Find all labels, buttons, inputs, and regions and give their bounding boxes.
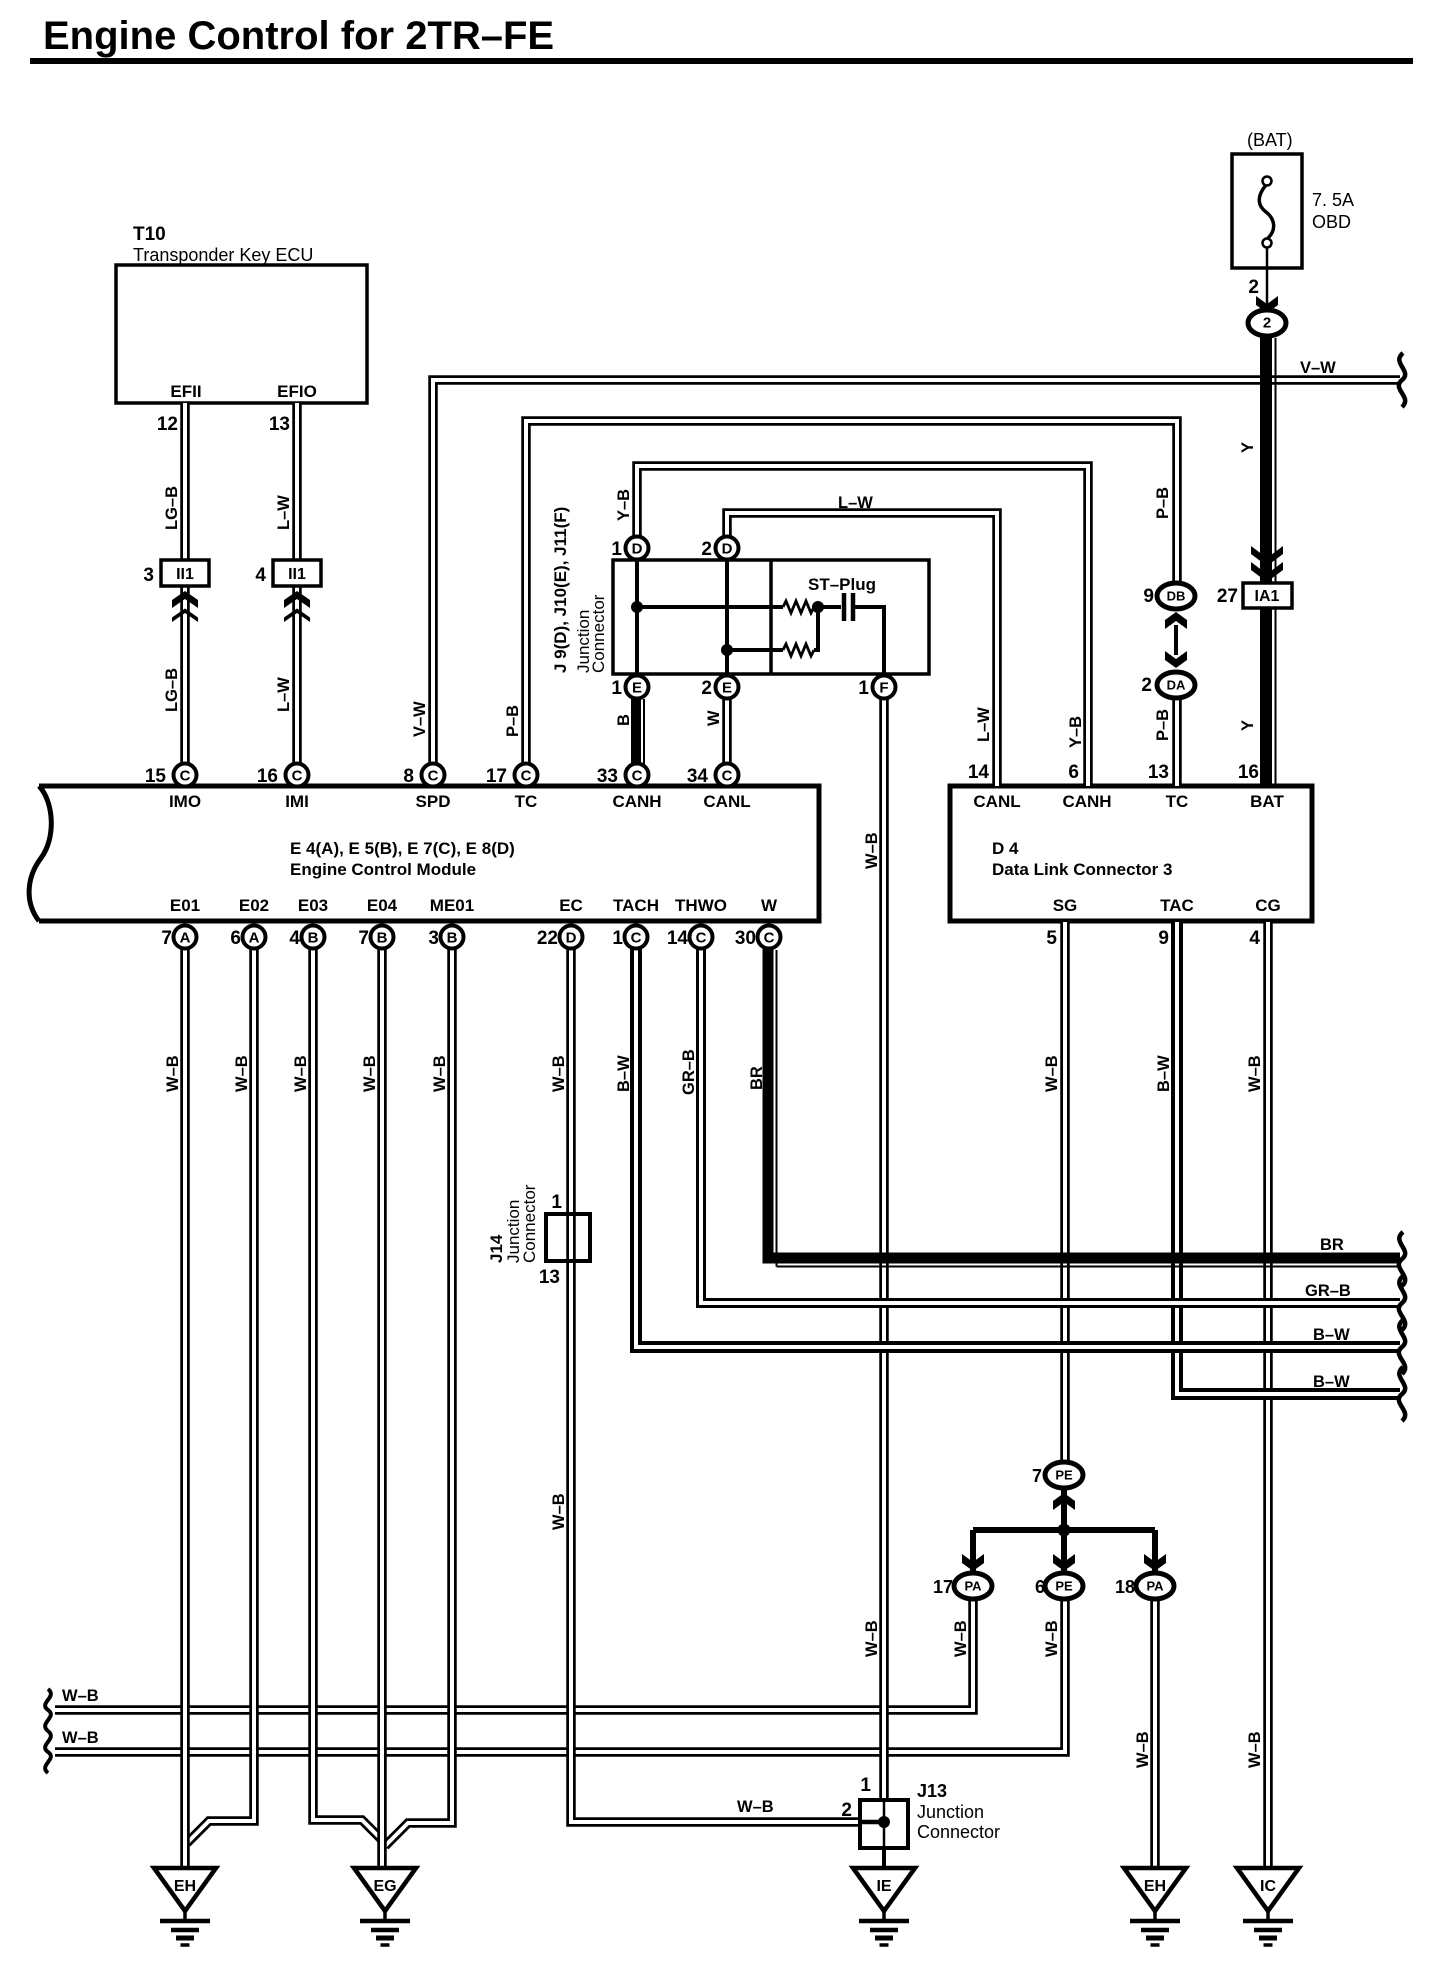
svg-text:E: E	[632, 680, 642, 697]
bus 2 continuation brace at left edge	[45, 1731, 51, 1773]
J13 internal wire vertical	[883, 1800, 886, 1848]
wire W-B from junction connector pin 1F down to J13	[879, 699, 889, 1800]
junction connector pin 1D	[626, 537, 649, 560]
internal wire from 1D bus to resistor R1	[637, 605, 783, 609]
svg-text:8: 8	[403, 766, 414, 787]
svg-text:7: 7	[1032, 1466, 1042, 1486]
svg-text:B: B	[447, 930, 458, 947]
svg-text:C: C	[180, 768, 191, 785]
svg-text:B: B	[377, 930, 388, 947]
arrow down into PA pin 18	[1144, 1554, 1166, 1571]
svg-text:6: 6	[1068, 762, 1079, 783]
wire LG-B from T10 EFII pin 12 through II1 to ECM IMO pin 15C	[180, 403, 190, 764]
svg-text:4: 4	[289, 928, 300, 949]
svg-text:Y: Y	[1239, 720, 1257, 731]
junction connector pin 1F	[873, 676, 896, 699]
svg-text:16: 16	[257, 766, 278, 787]
svg-text:CANH: CANH	[1062, 792, 1111, 811]
ground IC	[1237, 1868, 1299, 1945]
svg-text:PA: PA	[964, 1579, 982, 1594]
bus 1 continuation brace at left edge	[45, 1689, 51, 1731]
junction connector internal bus 1D-1E	[635, 560, 639, 674]
svg-text:V–W: V–W	[1300, 359, 1336, 377]
stem between DB and DA arrows	[1174, 625, 1178, 655]
svg-text:B: B	[615, 714, 633, 726]
svg-text:W: W	[761, 896, 778, 915]
svg-text:3: 3	[143, 565, 154, 586]
svg-text:E02: E02	[239, 896, 269, 915]
svg-text:1: 1	[611, 678, 622, 699]
svg-text:II1: II1	[176, 566, 194, 583]
svg-text:SG: SG	[1053, 896, 1078, 915]
svg-text:W–B: W–B	[431, 1055, 449, 1092]
svg-text:BR: BR	[1320, 1236, 1344, 1254]
svg-text:Connector: Connector	[589, 594, 608, 673]
svg-text:B–W: B–W	[615, 1055, 633, 1092]
internal wire from 2E bus to resistor R2	[727, 648, 783, 652]
svg-text:6: 6	[1035, 1577, 1045, 1597]
wire L-W from junction 2D to DLC3 CANL pin 14	[727, 513, 997, 786]
svg-text:V–W: V–W	[411, 701, 429, 737]
svg-text:TACH: TACH	[613, 896, 659, 915]
svg-text:W–B: W–B	[1043, 1620, 1061, 1657]
ECM pin 33 C (CANH)	[626, 764, 649, 787]
svg-text:A: A	[249, 930, 260, 947]
svg-text:2: 2	[701, 678, 712, 699]
svg-text:C: C	[521, 768, 532, 785]
svg-text:SPD: SPD	[416, 792, 451, 811]
svg-text:PE: PE	[1055, 1579, 1073, 1594]
ECM pin 34 C (CANL)	[716, 764, 739, 787]
wire W-B ground bus 1 from left edge to connector PA pin17	[55, 1598, 973, 1710]
oval node 2	[1248, 310, 1286, 336]
oval connector PE pin 6	[1045, 1573, 1083, 1599]
wire W-B from ECM E03 pin 4B merging to EG ground lead	[313, 948, 384, 1842]
svg-text:Data Link Connector 3: Data Link Connector 3	[992, 860, 1172, 879]
connector II1 pin 3 box	[161, 560, 209, 586]
svg-text:IC: IC	[1260, 1878, 1276, 1895]
svg-text:P–B: P–B	[504, 705, 522, 737]
svg-text:5: 5	[1046, 928, 1057, 949]
wire P-B from ECM TC pin 17C to connector DB pin 9	[526, 421, 1177, 764]
junction connector pin 2D	[716, 537, 739, 560]
svg-text:W–B: W–B	[62, 1687, 99, 1705]
wire Y (battery feed) from node 2 through IA1 to DLC3 BAT pin 16	[1266, 336, 1276, 786]
svg-text:F: F	[879, 680, 888, 697]
svg-text:OBD: OBD	[1312, 212, 1351, 232]
svg-text:7: 7	[358, 928, 369, 949]
junction dot on 1D bus	[631, 601, 643, 613]
svg-text:W–B: W–B	[863, 832, 881, 869]
svg-text:W–B: W–B	[1134, 1731, 1152, 1768]
svg-text:W: W	[705, 710, 723, 726]
oval connector PA pin 17	[954, 1573, 992, 1599]
svg-text:W–B: W–B	[952, 1620, 970, 1657]
ECM pin 4 B (E03)	[302, 926, 325, 949]
svg-text:TC: TC	[515, 792, 538, 811]
ECM pin 3 B (ME01)	[441, 926, 464, 949]
svg-text:W–B: W–B	[550, 1493, 568, 1530]
resistor R2 (ST-plug)	[783, 644, 814, 656]
junction dot after R1	[812, 601, 824, 613]
IA1 connector box	[1243, 583, 1292, 608]
svg-text:CANL: CANL	[703, 792, 750, 811]
arrow up into II1 (right)	[284, 591, 310, 622]
internal wire R1 to capacitor	[814, 605, 841, 609]
wire Y-B from junction 1D to DLC3 CANH pin 6	[637, 466, 1088, 786]
BR wire continuation at right edge	[1399, 1232, 1405, 1286]
ECM pin 8 C (SPD)	[422, 764, 445, 787]
svg-text:D: D	[566, 930, 577, 947]
svg-text:J 9(D), J10(E), J11(F): J 9(D), J10(E), J11(F)	[551, 507, 570, 673]
svg-text:17: 17	[486, 766, 507, 787]
junction dot at splitter	[1058, 1524, 1071, 1537]
svg-text:2: 2	[701, 539, 712, 560]
svg-text:12: 12	[157, 414, 178, 435]
svg-text:W–B: W–B	[292, 1055, 310, 1092]
junction dot on 2E bus	[721, 644, 733, 656]
svg-text:18: 18	[1115, 1577, 1135, 1597]
arrow down into PE pin 6	[1053, 1554, 1075, 1571]
svg-text:LG–B: LG–B	[163, 668, 181, 712]
svg-text:9: 9	[1158, 928, 1169, 949]
svg-text:EFIO: EFIO	[277, 382, 317, 401]
svg-text:PE: PE	[1055, 1468, 1073, 1483]
svg-text:C: C	[428, 768, 439, 785]
junction connector pin 1E	[626, 676, 649, 699]
wire W from junction 2E to ECM CANL pin 34C	[722, 699, 732, 764]
svg-text:C: C	[631, 930, 642, 947]
svg-text:P–B: P–B	[1154, 709, 1172, 741]
svg-text:L–W: L–W	[838, 494, 873, 512]
wire from J13 to ground IE	[882, 1848, 886, 1868]
svg-text:Connector: Connector	[520, 1184, 539, 1263]
svg-text:14: 14	[667, 928, 689, 949]
svg-text:1: 1	[858, 678, 869, 699]
wire L-W from T10 EFIO pin 13 through II1 to ECM IMI pin 16C	[292, 403, 302, 764]
svg-text:BR: BR	[748, 1066, 766, 1090]
ground EH (left)	[154, 1868, 216, 1945]
svg-text:Engine Control for 2TR–FE: Engine Control for 2TR–FE	[43, 14, 554, 58]
svg-text:ST–Plug: ST–Plug	[808, 575, 876, 594]
wire B-W from ECM TACH pin 1C to right edge	[636, 948, 1400, 1347]
svg-text:13: 13	[1148, 762, 1169, 783]
wire W-B ground bus 2 from left edge to connector PE pin6	[55, 1598, 1065, 1752]
oval connector DB pin 9	[1157, 583, 1195, 609]
wire W-B from connector PA pin 18 to ground EH (right)	[1150, 1598, 1160, 1868]
internal wire capacitor to pin 1F	[853, 607, 884, 674]
svg-text:Engine Control Module: Engine Control Module	[290, 860, 476, 879]
svg-text:C: C	[632, 768, 643, 785]
svg-text:ME01: ME01	[430, 896, 474, 915]
transponder key ECU T10 box	[116, 265, 367, 403]
svg-text:T10: T10	[133, 224, 166, 245]
svg-text:W–B: W–B	[1246, 1731, 1264, 1768]
arrow up into II1 (left)	[172, 591, 198, 622]
ECM box E4(A),E5(B),E7(C),E8(D) Engine Control Module	[29, 786, 819, 921]
title underline rule	[30, 58, 1413, 64]
svg-text:CG: CG	[1255, 896, 1281, 915]
ECM pin 6 A (E02)	[243, 926, 266, 949]
V-W wire continuation at right edge	[1399, 353, 1405, 407]
svg-text:P–B: P–B	[1154, 487, 1172, 519]
svg-text:D: D	[722, 541, 733, 558]
svg-text:W–B: W–B	[1043, 1055, 1061, 1092]
svg-text:22: 22	[537, 928, 558, 949]
svg-text:7: 7	[161, 928, 172, 949]
ground EH (right)	[1124, 1868, 1186, 1945]
junction connector internal bus 2D-2E	[725, 560, 729, 674]
ECM pin 7 B (E04)	[371, 926, 394, 949]
svg-text:THWO: THWO	[675, 896, 727, 915]
svg-text:LG–B: LG–B	[163, 486, 181, 530]
svg-text:33: 33	[597, 766, 618, 787]
svg-text:1: 1	[551, 1192, 562, 1213]
svg-text:W–B: W–B	[361, 1055, 379, 1092]
svg-text:6: 6	[230, 928, 241, 949]
GR-B wire continuation at right edge	[1399, 1276, 1405, 1330]
svg-text:2: 2	[1248, 277, 1259, 298]
svg-text:B–W: B–W	[1155, 1055, 1173, 1092]
connector II1 pin 4 box	[273, 560, 321, 586]
svg-text:IMI: IMI	[285, 792, 309, 811]
junction connector J13 box	[860, 1800, 908, 1848]
svg-text:(BAT): (BAT)	[1247, 130, 1293, 150]
svg-text:E01: E01	[170, 896, 200, 915]
svg-text:GR–B: GR–B	[1305, 1282, 1351, 1300]
svg-text:PA: PA	[1146, 1579, 1164, 1594]
svg-text:1: 1	[611, 539, 622, 560]
wire W-B from DLC3 CG pin 4 to ground IC	[1263, 922, 1273, 1868]
wire W-B from DLC3 SG pin 5 to connector PE pin 7	[1060, 922, 1070, 1463]
svg-text:B–W: B–W	[1313, 1373, 1350, 1391]
wire P-B from connector DA pin 2 to DLC3 TC pin 13	[1172, 698, 1182, 786]
svg-text:CANL: CANL	[973, 792, 1020, 811]
svg-text:C: C	[764, 930, 775, 947]
svg-text:B: B	[308, 930, 319, 947]
junction connector J14 box	[546, 1214, 590, 1261]
fuse lead wire	[1266, 247, 1269, 308]
svg-text:W–B: W–B	[164, 1055, 182, 1092]
svg-text:27: 27	[1217, 586, 1238, 607]
wire W-B from ECM ME01 pin 3B merging to EG ground lead	[385, 948, 452, 1846]
svg-text:TC: TC	[1166, 792, 1189, 811]
svg-text:E03: E03	[298, 896, 328, 915]
svg-text:30: 30	[735, 928, 756, 949]
arrow down into DA	[1165, 651, 1187, 668]
svg-text:2: 2	[841, 1800, 852, 1821]
wire W-B from ECM E01 pin 7A to ground EH	[180, 948, 190, 1868]
oval connector DA pin 2	[1157, 672, 1195, 698]
svg-text:17: 17	[933, 1577, 953, 1597]
ECM pin 22 D (EC)	[560, 926, 583, 949]
svg-text:15: 15	[145, 766, 167, 787]
arrow up into DB	[1165, 612, 1187, 629]
junction connector J9(D) J10(E) J11(F) box with ST-Plug	[613, 560, 929, 674]
svg-text:L–W: L–W	[275, 677, 293, 712]
svg-text:EH: EH	[1144, 1878, 1166, 1895]
data link connector D4 box	[950, 786, 1312, 921]
wire W-B from ECM EC pin 22D through J14 to J13 junction connector	[571, 948, 860, 1822]
svg-text:9: 9	[1143, 586, 1154, 607]
J13 internal wire from pin 2 to junction	[860, 1820, 884, 1825]
B-W (TAC) wire continuation at right edge	[1399, 1367, 1405, 1421]
junction dot inside J13	[878, 1816, 890, 1828]
svg-text:B–W: B–W	[1313, 1326, 1350, 1344]
svg-text:D: D	[632, 541, 643, 558]
svg-text:C: C	[696, 930, 707, 947]
svg-text:D 4: D 4	[992, 839, 1019, 858]
svg-text:13: 13	[269, 414, 290, 435]
svg-text:14: 14	[968, 762, 990, 783]
svg-text:DB: DB	[1167, 589, 1186, 604]
wire W-B splitter from PE pin 7 to PA pin17 / PE pin6 / PA pin18	[973, 1488, 1155, 1572]
arrow down into PA pin 17	[962, 1554, 984, 1571]
svg-text:7. 5A: 7. 5A	[1312, 190, 1354, 210]
fuse element 7.5A OBD	[1259, 177, 1273, 248]
svg-text:34: 34	[687, 766, 709, 787]
ECM pin 16 C (IMI)	[286, 764, 309, 787]
wire W-B from ECM E02 pin 6A merging to EH ground lead	[187, 948, 254, 1843]
fuse 7.5A OBD box	[1232, 154, 1302, 268]
ECM pin 1 C (TACH)	[625, 926, 648, 949]
wire B from junction 1E to ECM CANH pin 33C	[636, 699, 644, 764]
svg-text:TAC: TAC	[1160, 896, 1194, 915]
svg-text:L–W: L–W	[275, 495, 293, 530]
svg-text:16: 16	[1238, 762, 1259, 783]
svg-text:2: 2	[1141, 675, 1152, 696]
resistor R1 (ST-plug)	[783, 601, 814, 613]
svg-text:IE: IE	[876, 1878, 891, 1895]
svg-text:Junction: Junction	[917, 1802, 984, 1822]
svg-text:L–W: L–W	[975, 707, 993, 742]
ECM pin 30 C (W)	[758, 926, 781, 949]
svg-text:EG: EG	[373, 1878, 396, 1895]
svg-text:W–B: W–B	[233, 1055, 251, 1092]
arrow into node 2	[1256, 296, 1278, 313]
svg-text:GR–B: GR–B	[680, 1049, 698, 1095]
svg-text:EH: EH	[174, 1878, 196, 1895]
internal wire R2 up to R1 node	[814, 607, 818, 650]
svg-text:Y: Y	[1239, 442, 1257, 453]
ECM pin 7 A (E01)	[174, 926, 197, 949]
svg-text:4: 4	[255, 565, 266, 586]
svg-text:W–B: W–B	[550, 1055, 568, 1092]
svg-text:1: 1	[612, 928, 623, 949]
junction connector pin 2E	[716, 676, 739, 699]
oval connector PA pin 18	[1136, 1573, 1174, 1599]
arrow up into PE pin 7	[1053, 1493, 1075, 1510]
svg-text:Y–B: Y–B	[615, 489, 633, 521]
svg-text:C: C	[722, 768, 733, 785]
svg-text:IMO: IMO	[169, 792, 201, 811]
ground EG	[354, 1868, 416, 1945]
svg-text:II1: II1	[288, 566, 306, 583]
svg-text:W–B: W–B	[1246, 1055, 1264, 1092]
ECM pin 14 C (THWO)	[690, 926, 713, 949]
svg-text:E 4(A), E 5(B), E 7(C), E 8(D): E 4(A), E 5(B), E 7(C), E 8(D)	[290, 839, 515, 858]
svg-text:EFII: EFII	[170, 382, 201, 401]
double chevron arrow into IA1	[1251, 546, 1283, 582]
capacitor C1 (ST-plug)	[844, 593, 853, 621]
svg-text:13: 13	[539, 1267, 560, 1288]
ECM pin 15 C (IMO)	[174, 764, 197, 787]
svg-text:4: 4	[1249, 928, 1260, 949]
svg-text:A: A	[180, 930, 191, 947]
svg-text:C: C	[292, 768, 303, 785]
svg-text:W–B: W–B	[62, 1729, 99, 1747]
svg-text:2: 2	[1263, 315, 1271, 332]
wire W-B from ECM E04 pin 7B to ground EG	[377, 948, 387, 1868]
svg-text:IA1: IA1	[1255, 588, 1280, 605]
svg-text:3: 3	[428, 928, 439, 949]
svg-text:DA: DA	[1167, 678, 1186, 693]
wire BR from ECM W pin 30C to right edge	[763, 948, 1401, 1267]
B-W wire continuation at right edge	[1399, 1320, 1405, 1374]
svg-text:E: E	[722, 680, 732, 697]
svg-text:1: 1	[860, 1775, 871, 1796]
oval connector PE pin 7	[1045, 1462, 1083, 1488]
wire B-W from DLC3 TAC pin 9 to right edge	[1177, 922, 1400, 1394]
svg-text:BAT: BAT	[1250, 792, 1284, 811]
svg-text:E04: E04	[367, 896, 398, 915]
svg-text:Connector: Connector	[917, 1822, 1000, 1842]
wire GR-B from ECM THWO pin 14C to right edge	[701, 948, 1400, 1303]
ECM pin 17 C (TC)	[515, 764, 538, 787]
svg-text:Transponder Key ECU: Transponder Key ECU	[133, 245, 313, 265]
svg-text:J13: J13	[917, 1781, 947, 1801]
ground IE	[853, 1868, 915, 1945]
svg-text:W–B: W–B	[863, 1620, 881, 1657]
svg-text:EC: EC	[559, 896, 583, 915]
svg-text:Y–B: Y–B	[1067, 716, 1085, 748]
svg-text:W–B: W–B	[737, 1798, 774, 1816]
svg-text:CANH: CANH	[612, 792, 661, 811]
wire V-W from ECM SPD pin 8C to right edge	[433, 380, 1400, 764]
